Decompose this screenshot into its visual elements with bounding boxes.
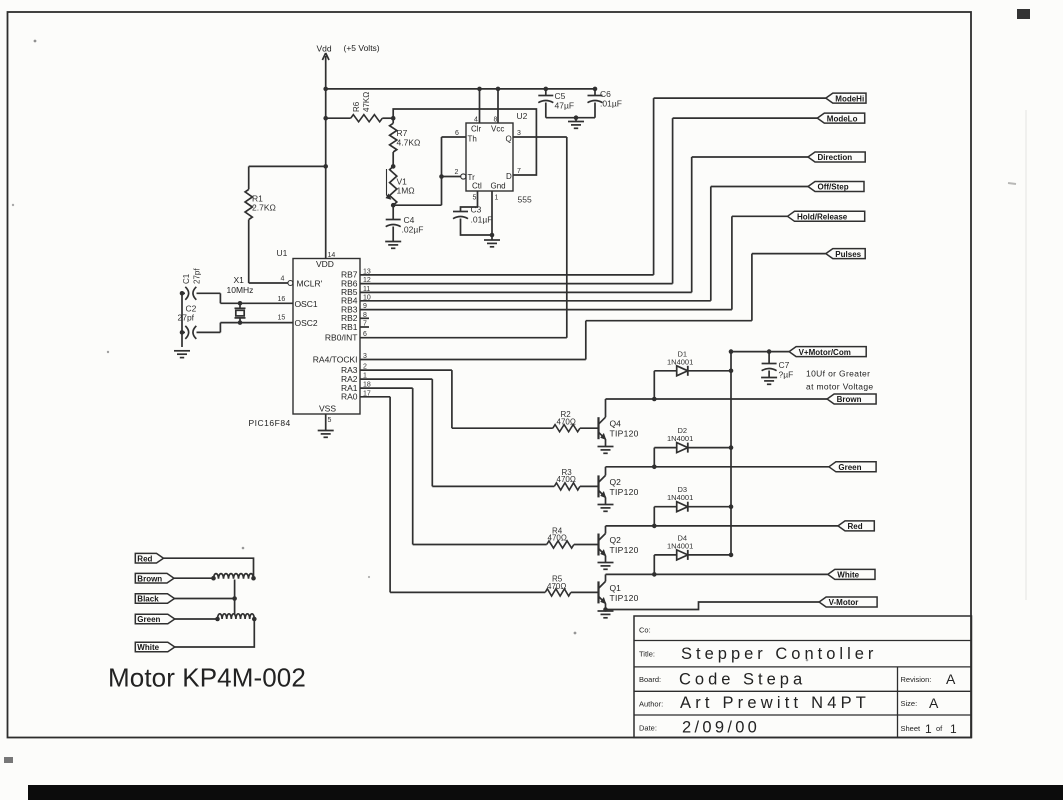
svg-text:Art Prewitt N4PT: Art Prewitt N4PT [680,694,870,712]
svg-text:of: of [936,724,943,733]
svg-text:C1: C1 [182,273,191,284]
svg-text:A: A [929,695,939,711]
svg-text:ModeHi: ModeHi [835,94,864,103]
svg-text:1: 1 [925,722,932,736]
svg-text:16: 16 [278,296,286,303]
svg-text:1N4001: 1N4001 [667,541,693,550]
svg-text:Code Stepa: Code Stepa [679,671,806,689]
svg-text:15: 15 [278,315,286,322]
svg-text:Co:: Co: [639,626,651,635]
svg-text:2.7KΩ: 2.7KΩ [252,203,276,213]
svg-text:C4: C4 [404,215,415,225]
svg-text:Red: Red [848,522,863,531]
svg-text:U1: U1 [277,248,288,258]
svg-text:Red: Red [137,554,152,563]
svg-text:27pf: 27pf [193,268,202,284]
svg-text:MCLR': MCLR' [297,279,323,289]
svg-text:RA4/TOCKI: RA4/TOCKI [313,354,358,364]
svg-text:C5: C5 [555,91,566,101]
svg-text:White: White [137,643,159,652]
svg-text:Q2: Q2 [610,535,622,545]
svg-text:TIP120: TIP120 [610,545,639,555]
svg-text:27pf: 27pf [178,313,195,323]
svg-text:Stepper Contoller: Stepper Contoller [681,645,877,663]
svg-text:(+5 Volts): (+5 Volts) [344,43,380,53]
svg-text:Ctl: Ctl [472,182,482,191]
svg-text:Q1: Q1 [610,583,622,593]
svg-text:2: 2 [455,169,459,176]
svg-text:Board:: Board: [639,675,661,684]
svg-text:4: 4 [281,276,285,283]
svg-text:5: 5 [473,195,477,202]
svg-text:Brown: Brown [837,395,862,404]
svg-text:10Uf or Greater: 10Uf or Greater [806,369,870,379]
svg-text:RB1: RB1 [341,322,358,332]
svg-text:Revision:: Revision: [901,675,932,684]
svg-text:1N4001: 1N4001 [667,493,693,502]
svg-text:VDD: VDD [316,259,334,269]
svg-text:Q4: Q4 [610,419,622,429]
svg-text:TIP120: TIP120 [610,593,639,603]
svg-text:PIC16F84: PIC16F84 [249,418,291,428]
svg-text:VSS: VSS [319,404,336,414]
svg-text:5: 5 [328,417,332,424]
svg-text:U2: U2 [517,111,528,121]
svg-text:470Ω: 470Ω [547,582,566,591]
svg-text:White: White [837,571,859,580]
svg-text:Vdd: Vdd [317,44,332,54]
svg-text:47KΩ: 47KΩ [362,92,371,112]
svg-text:TIP120: TIP120 [610,429,639,439]
svg-text:TIP120: TIP120 [610,487,639,497]
svg-text:Author:: Author: [639,700,663,709]
svg-text:Date:: Date: [639,724,657,733]
svg-text:4.7KΩ: 4.7KΩ [397,138,421,148]
svg-text:14: 14 [328,252,336,259]
svg-text:.01µF: .01µF [600,99,622,109]
svg-text:V+Motor/Com: V+Motor/Com [799,348,851,357]
svg-text:Direction: Direction [818,153,853,162]
svg-text:X1: X1 [234,275,245,285]
svg-text:Size:: Size: [901,699,918,708]
svg-text:470Ω: 470Ω [557,475,576,484]
svg-text:555: 555 [518,195,532,205]
svg-text:Clr: Clr [471,125,482,134]
svg-text:1: 1 [495,195,499,202]
svg-text:1MΩ: 1MΩ [397,186,415,196]
svg-text:R6: R6 [352,101,361,112]
svg-text:1N4001: 1N4001 [667,357,693,366]
svg-text:OSC1: OSC1 [295,299,318,309]
svg-text:R7: R7 [397,128,408,138]
svg-text:1: 1 [950,722,957,736]
svg-text:C3: C3 [471,205,482,215]
svg-text:A: A [946,671,956,687]
svg-text:RA0: RA0 [341,392,358,402]
svg-text:Pulses: Pulses [835,250,861,259]
svg-text:OSC2: OSC2 [295,318,318,328]
svg-text:470Ω: 470Ω [557,418,576,427]
svg-text:Vcc: Vcc [491,125,504,134]
svg-text:RB0/INT: RB0/INT [325,333,358,343]
svg-text:Green: Green [137,615,160,624]
svg-text:7: 7 [517,168,521,175]
svg-text:.02µF: .02µF [402,225,424,235]
svg-text:Green: Green [838,463,861,472]
svg-text:V-Motor: V-Motor [829,598,859,607]
svg-text:Off/Step: Off/Step [818,183,849,192]
svg-text:Motor KP4M-002: Motor KP4M-002 [108,663,306,693]
svg-text:2/09/00: 2/09/00 [682,719,760,737]
svg-text:Sheet: Sheet [901,724,922,733]
svg-text:47µF: 47µF [555,101,575,111]
svg-text:?µF: ?µF [779,370,794,380]
svg-text:Title:: Title: [639,650,655,659]
svg-text:D: D [506,172,512,181]
svg-text:.01µF: .01µF [471,215,493,225]
svg-text:C6: C6 [600,89,611,99]
svg-text:1N4001: 1N4001 [667,434,693,443]
svg-text:ModeLo: ModeLo [827,114,858,123]
svg-text:6: 6 [455,130,459,137]
svg-text:470Ω: 470Ω [548,534,567,543]
svg-text:Th: Th [468,135,477,144]
svg-text:3: 3 [517,130,521,137]
svg-text:8: 8 [494,117,498,124]
svg-text:Gnd: Gnd [491,182,506,191]
svg-text:Brown: Brown [137,574,162,583]
svg-text:Q2: Q2 [610,477,622,487]
svg-text:Black: Black [137,595,159,604]
svg-text:at motor Voltage: at motor Voltage [806,382,874,392]
svg-text:C7: C7 [779,360,790,370]
svg-text:Q: Q [506,135,512,144]
svg-text:4: 4 [474,117,478,124]
svg-text:Hold/Release: Hold/Release [797,213,848,222]
svg-text:10MHz: 10MHz [227,285,254,295]
